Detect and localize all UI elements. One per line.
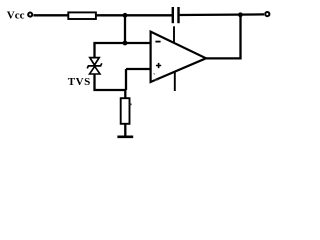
wire Vcc to R1 <box>34 14 69 16</box>
wire node B down to TVS top <box>93 43 95 58</box>
ground <box>117 136 133 139</box>
capacitor C1 left plate <box>172 7 174 23</box>
TVS D1 zener bar with hooks <box>87 63 102 68</box>
wire node C up to non-inverting input <box>125 69 127 90</box>
junction node OUT <box>238 12 243 17</box>
scan speck on R2 edge <box>130 103 132 105</box>
op-amp U1 positive supply pin <box>173 26 175 42</box>
TVS D1 top diode (apex down) <box>90 58 99 65</box>
resistor R2 <box>121 98 130 124</box>
wire to op-amp non-inverting input <box>126 68 151 70</box>
wire op-amp output <box>206 15 241 59</box>
op-amp U1 body <box>151 32 206 82</box>
capacitor C1 right plate <box>177 7 179 23</box>
wire node A down to inverting input rail <box>124 15 126 43</box>
resistor R1 <box>68 12 96 19</box>
wire node C down to R2 <box>124 90 126 99</box>
junction node A (top of feedback divider) <box>123 13 128 18</box>
wire R1 to capacitor <box>96 14 172 16</box>
op-amp U1 negative supply pin <box>174 72 176 91</box>
svg-text:TVS: TVS <box>68 76 91 88</box>
svg-text:Vcc: Vcc <box>7 10 25 22</box>
wire TVS bottom down and right to node C <box>95 74 127 90</box>
wire capacitor to output terminal <box>180 13 264 16</box>
op-amp U1 non-inverting sign <box>156 63 161 68</box>
op-amp pin smudge mark <box>154 74 159 81</box>
junction node B (inverting input / TVS) <box>123 41 128 46</box>
wire node B to op-amp inverting input <box>93 42 150 44</box>
op-amp U1 inverting sign <box>155 41 160 43</box>
TVS D1 bottom diode (apex up) <box>90 66 101 74</box>
terminal output <box>265 12 269 16</box>
terminal Vcc input <box>28 13 32 17</box>
wire R2 to ground <box>124 124 126 137</box>
